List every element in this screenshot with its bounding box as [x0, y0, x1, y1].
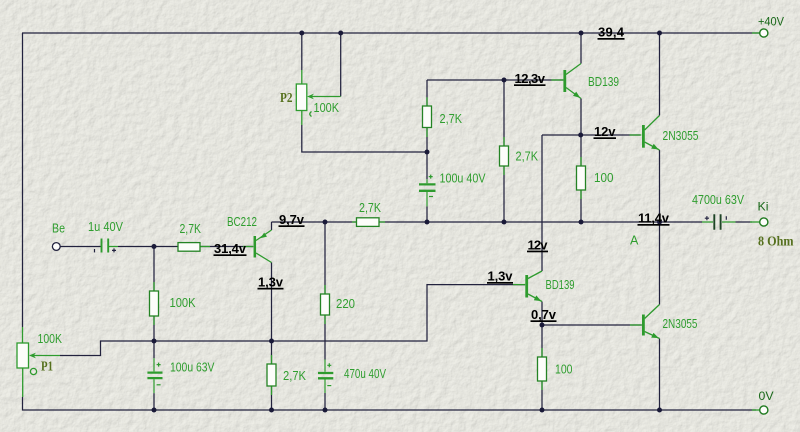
- svg-text:2,7K: 2,7K: [516, 150, 539, 164]
- svg-text:11,4v: 11,4v: [638, 211, 670, 226]
- svg-text:P2: P2: [280, 90, 293, 105]
- svg-text:Ki: Ki: [758, 200, 769, 214]
- svg-text:BD139: BD139: [588, 75, 619, 89]
- svg-text:0,7v: 0,7v: [531, 307, 557, 322]
- svg-text:BC212: BC212: [227, 215, 257, 229]
- svg-text:100: 100: [555, 363, 573, 377]
- svg-text:220: 220: [336, 297, 355, 311]
- svg-text:BD139: BD139: [546, 278, 575, 292]
- svg-text:1,3v: 1,3v: [488, 269, 514, 284]
- svg-text:A: A: [630, 234, 639, 248]
- svg-text:100K: 100K: [38, 332, 63, 346]
- svg-text:2N3055: 2N3055: [663, 317, 698, 331]
- svg-text:1,3v: 1,3v: [258, 275, 284, 290]
- svg-text:12,3v: 12,3v: [515, 71, 546, 86]
- svg-text:12v: 12v: [528, 237, 549, 252]
- svg-text:2,7K: 2,7K: [359, 201, 382, 215]
- svg-text:P1: P1: [41, 359, 53, 374]
- svg-text:9,7v: 9,7v: [279, 212, 305, 227]
- svg-text:100: 100: [594, 171, 614, 185]
- svg-text:12v: 12v: [594, 124, 616, 139]
- svg-text:8 Ohm: 8 Ohm: [758, 234, 794, 249]
- svg-text:4700u 63V: 4700u 63V: [692, 193, 745, 207]
- svg-text:100u 40V: 100u 40V: [440, 172, 487, 186]
- svg-text:2,7K: 2,7K: [440, 112, 463, 126]
- svg-text:2N3055: 2N3055: [663, 129, 699, 143]
- svg-text:0V: 0V: [759, 389, 774, 403]
- svg-text:+40V: +40V: [758, 15, 784, 29]
- svg-text:2,7K: 2,7K: [180, 222, 202, 236]
- svg-text:100K: 100K: [170, 296, 197, 310]
- svg-text:470u 40V: 470u 40V: [344, 367, 387, 381]
- svg-text:100u 63V: 100u 63V: [170, 361, 215, 375]
- svg-text:100K: 100K: [314, 101, 340, 115]
- svg-text:2,7K: 2,7K: [283, 369, 307, 383]
- svg-text:31,4v: 31,4v: [214, 241, 247, 256]
- svg-text:1u 40V: 1u 40V: [88, 220, 124, 234]
- svg-text:Be: Be: [52, 222, 65, 236]
- svg-text:39,4: 39,4: [598, 25, 625, 40]
